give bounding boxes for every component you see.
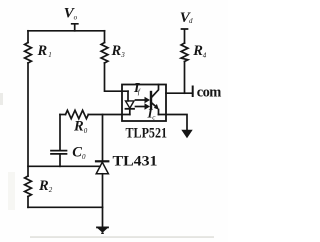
wire R4 to com rail	[184, 62, 186, 94]
optocoupler box U1	[122, 85, 166, 122]
arrowhead light 2	[145, 103, 151, 109]
wire left rail upper	[27, 31, 29, 43]
svg-text:TL431: TL431	[113, 153, 158, 169]
terminal Vo	[72, 24, 78, 31]
svg-text:R: R	[192, 43, 203, 59]
svg-text:3: 3	[120, 51, 125, 59]
ground (bottom)	[97, 226, 108, 228]
LED D1	[126, 101, 135, 108]
wire C0 lower lead	[59, 154, 61, 166]
terminal Vd	[182, 29, 188, 43]
svg-text:com: com	[197, 85, 222, 101]
svg-text:R: R	[37, 43, 48, 59]
svg-text:1: 1	[48, 51, 52, 59]
phototransistor emitter	[152, 103, 157, 108]
wire bottom rail	[28, 206, 103, 208]
capacitor C0	[51, 151, 67, 154]
phototransistor base bar	[150, 92, 152, 108]
wire TL431 anode	[102, 174, 104, 228]
svg-text:4: 4	[203, 52, 207, 60]
svg-text:C: C	[72, 144, 82, 160]
svg-text:R: R	[111, 43, 122, 59]
svg-text:2: 2	[49, 186, 53, 194]
wire emitter out	[159, 115, 188, 131]
wire collector out to com	[166, 92, 193, 94]
arrowhead emitter	[154, 104, 159, 110]
svg-text:d: d	[189, 17, 193, 25]
light arrow 1	[136, 99, 147, 101]
svg-text:R: R	[38, 178, 49, 194]
scan smudge bottom	[30, 236, 214, 238]
scan blob left 1	[0, 93, 3, 105]
svg-text:0: 0	[84, 127, 88, 135]
terminal com	[192, 87, 194, 97]
ground arrow (right)	[181, 130, 192, 139]
svg-text:o: o	[74, 13, 78, 21]
arrowhead light 1	[145, 97, 151, 103]
svg-text:TLP521: TLP521	[126, 126, 168, 142]
scan blob left 2	[8, 172, 15, 210]
wire C0 upper lead	[59, 115, 61, 151]
phototransistor collector	[152, 85, 159, 98]
wire TL431 ref	[28, 165, 100, 167]
wire left rail middle	[27, 63, 29, 176]
wire R0 left stub	[60, 114, 66, 116]
LED D1 anode lead	[127, 91, 129, 101]
light arrow 2	[136, 106, 147, 108]
wire R0 to LED cathode	[88, 114, 130, 116]
light arrow heads	[145, 97, 193, 139]
wire TL431 cathode	[102, 115, 104, 162]
wire R3 column upper	[104, 31, 106, 43]
wire top rail	[28, 30, 105, 32]
resistor R3	[101, 43, 108, 64]
resistor R4	[181, 43, 188, 62]
svg-text:R: R	[73, 119, 84, 135]
wire R3 to LED anode	[105, 63, 129, 91]
wire left rail lower	[27, 197, 29, 208]
svg-text:0: 0	[82, 153, 86, 161]
diode TL431	[96, 160, 108, 162]
resistor R2	[25, 176, 32, 197]
resistor R0	[66, 110, 89, 118]
svg-text:f: f	[138, 87, 141, 96]
resistor R1	[25, 43, 32, 64]
LED D1 cathode lead	[129, 109, 131, 115]
